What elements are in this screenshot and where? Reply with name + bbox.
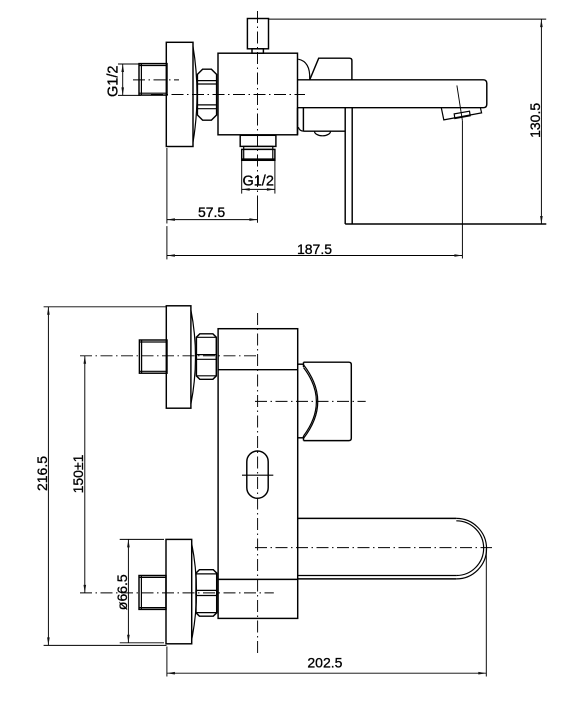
svg-text:57.5: 57.5 [198, 204, 225, 220]
svg-text:130.5: 130.5 [527, 103, 543, 138]
svg-text:202.5: 202.5 [307, 655, 342, 671]
svg-text:150±1: 150±1 [70, 454, 86, 493]
svg-text:ø66.5: ø66.5 [114, 574, 130, 610]
svg-text:G1/2: G1/2 [105, 66, 121, 97]
svg-text:187.5: 187.5 [297, 241, 332, 257]
svg-text:G1/2: G1/2 [242, 174, 273, 190]
svg-text:216.5: 216.5 [34, 456, 50, 491]
